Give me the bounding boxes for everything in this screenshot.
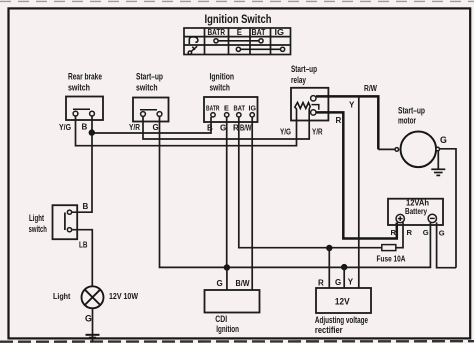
svg-text:12V: 12V	[335, 297, 350, 307]
svg-text:B: B	[82, 123, 88, 132]
svg-text:Y/R: Y/R	[312, 128, 323, 137]
wire bulb to ground	[92, 308, 94, 342]
svg-text:LB: LB	[79, 240, 88, 249]
svg-text:switch: switch	[210, 82, 230, 92]
svg-text:switch: switch	[68, 82, 90, 92]
svg-text:Y/R: Y/R	[129, 123, 140, 132]
svg-text:motor: motor	[398, 116, 416, 126]
CDI ignition box	[205, 290, 260, 313]
wire G ground bus to battery minus	[227, 222, 431, 267]
svg-text:12V 10W: 12V 10W	[109, 292, 138, 301]
svg-text:G: G	[153, 123, 159, 132]
svg-text:BAT: BAT	[234, 104, 246, 113]
svg-text:Start–up: Start–up	[136, 71, 163, 81]
node G junction at rectifier	[341, 264, 347, 270]
svg-text:rectifier: rectifier	[315, 325, 343, 335]
svg-text:Ignition: Ignition	[210, 71, 235, 81]
svg-text:G: G	[440, 135, 447, 145]
svg-text:Fuse 10A: Fuse 10A	[377, 254, 406, 263]
wire Y: tap to rectifier Y	[358, 96, 360, 288]
battery minus terminal	[428, 214, 436, 222]
svg-text:Ignition: Ignition	[216, 324, 239, 334]
wire B/W: ignition to CDI	[251, 117, 253, 290]
wire battery minus outer loop to motor	[437, 222, 456, 267]
svg-text:R: R	[391, 228, 397, 237]
svg-text:Rear brake: Rear brake	[68, 71, 102, 81]
top page edge faint dashed line	[0, 0, 474, 2]
svg-text:B/W: B/W	[236, 279, 250, 288]
start-up switch box	[133, 98, 169, 122]
motor left pin	[395, 148, 399, 152]
ignition switch component box	[204, 97, 258, 122]
svg-text:B/W: B/W	[240, 124, 252, 133]
svg-text:R: R	[407, 228, 413, 237]
table row2 contact E-IG	[236, 47, 284, 51]
wire G: ignition G down to bus	[226, 117, 228, 267]
node G junction at CDI	[224, 264, 230, 270]
wire R junction down to rectifier R	[328, 248, 330, 288]
table row2 key-on symbol	[188, 46, 197, 54]
svg-text:Y: Y	[348, 277, 354, 286]
wire motor ground stub	[437, 151, 439, 169]
wire R: ignition R to fuse bus	[239, 117, 403, 248]
relay contact arm	[312, 105, 319, 110]
svg-text:Battery: Battery	[405, 207, 427, 216]
table row1 contact BATR-BAT	[214, 39, 263, 43]
relay contact top	[311, 96, 316, 101]
svg-text:Start–up: Start–up	[398, 106, 425, 116]
fuse F1	[382, 245, 396, 251]
svg-text:Y/G: Y/G	[280, 127, 291, 136]
svg-text:G: G	[439, 229, 445, 238]
ground (motor)	[431, 169, 445, 175]
rear brake switch box	[66, 97, 103, 121]
motor right pin	[436, 147, 440, 151]
svg-text:CDI: CDI	[215, 314, 227, 324]
svg-text:G: G	[220, 124, 226, 133]
svg-text:IG: IG	[275, 28, 285, 37]
svg-text:Y/G: Y/G	[59, 123, 71, 132]
svg-text:E: E	[237, 28, 242, 37]
svg-text:E: E	[224, 104, 229, 113]
svg-text:G: G	[335, 278, 341, 287]
table header labels BATR E BAT IG	[208, 28, 285, 37]
wire LB: switch to bulb	[72, 230, 93, 287]
battery BT1 box	[388, 199, 443, 225]
svg-text:BATR: BATR	[208, 28, 226, 37]
svg-text:R: R	[336, 116, 342, 125]
svg-text:Ignition Switch: Ignition Switch	[205, 12, 272, 26]
wire G: start-up switch to ground bus	[160, 117, 227, 268]
light bulb L1	[82, 286, 104, 308]
wire B: rear brake to ignition B	[92, 116, 211, 133]
relay coil	[295, 103, 310, 121]
wire R: relay contact to battery plus	[316, 112, 397, 238]
svg-text:R/W: R/W	[364, 84, 377, 93]
bottom page dashed line	[0, 340, 474, 343]
ignition switch table grid	[184, 28, 291, 55]
rectifier box	[316, 288, 371, 313]
wire B down to light switch	[72, 133, 93, 212]
node B junction	[89, 129, 95, 135]
wire Y/R: start-up switch to relay	[143, 117, 309, 140]
svg-text:Start–up: Start–up	[291, 64, 317, 74]
svg-text:G: G	[423, 228, 429, 237]
svg-text:G: G	[85, 314, 92, 324]
node fuse bus junction	[326, 245, 332, 251]
svg-text:switch: switch	[136, 82, 158, 92]
svg-text:Light: Light	[29, 213, 44, 223]
label R R G G (battery pins)	[391, 228, 445, 238]
svg-text:R: R	[318, 278, 324, 287]
wire G stub to CDI	[226, 267, 228, 290]
wire to motor left terminal	[378, 148, 395, 150]
start-up relay box	[291, 88, 328, 121]
svg-text:G: G	[217, 279, 223, 288]
svg-text:IG: IG	[249, 104, 257, 113]
wire Y/G: rear brake to relay coil	[76, 116, 297, 146]
wire G junction down to rectifier G	[343, 267, 345, 288]
table row1 key-off symbol	[189, 37, 198, 44]
svg-text:B: B	[207, 124, 213, 133]
svg-text:BAT: BAT	[252, 28, 266, 37]
relay contact bottom	[311, 110, 316, 115]
svg-text:BATR: BATR	[206, 104, 220, 113]
wire R/W: relay contact to motor	[316, 96, 378, 149]
svg-text:Light: Light	[53, 292, 71, 301]
battery plus terminal	[396, 214, 404, 222]
svg-text:B: B	[83, 202, 89, 211]
wire motor to right drop	[440, 149, 457, 268]
svg-text:switch: switch	[29, 224, 47, 234]
svg-text:Y: Y	[349, 101, 355, 110]
svg-text:relay: relay	[291, 75, 306, 85]
light switch box	[53, 205, 78, 239]
motor M1	[401, 132, 437, 168]
svg-text:Adjusting voltage: Adjusting voltage	[315, 315, 368, 325]
ground (bulb)	[86, 335, 100, 338]
